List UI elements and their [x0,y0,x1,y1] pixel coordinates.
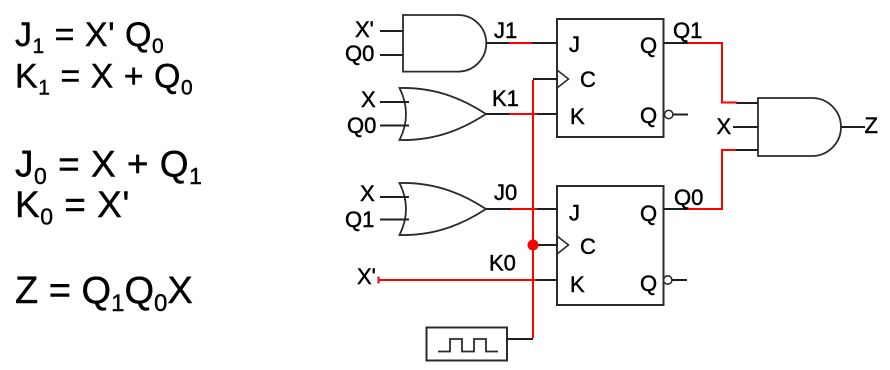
svg-text:J: J [569,201,580,226]
svg-text:J1 = X' Q0: J1 = X' Q0 [15,16,164,58]
svg-text:X: X [361,87,376,112]
svg-text:Q1: Q1 [345,207,374,232]
svg-text:K1 = X + Q0: K1 = X + Q0 [15,58,193,100]
svg-text:Z = Q1Q0X: Z = Q1Q0X [15,270,193,317]
svg-text:K: K [570,272,585,297]
svg-text:Q: Q [640,201,657,226]
svg-text:K0 = X': K0 = X' [15,184,130,230]
svg-text:K0: K0 [489,251,516,276]
svg-text:C: C [580,234,596,259]
svg-text:Q1: Q1 [673,18,702,43]
svg-text:X': X' [357,264,376,289]
svg-text:C: C [580,67,596,92]
svg-text:Q: Q [640,271,657,296]
svg-text:J0 = X + Q1: J0 = X + Q1 [15,144,202,190]
svg-text:Q: Q [640,33,657,58]
svg-text:Q: Q [640,103,657,128]
svg-text:X: X [717,114,732,139]
svg-text:Q0: Q0 [345,41,374,66]
svg-text:J0: J0 [494,180,517,205]
svg-text:X': X' [355,17,374,42]
svg-text:Z: Z [865,113,878,138]
svg-text:Q0: Q0 [347,113,376,138]
svg-text:J1: J1 [494,18,517,43]
svg-text:J: J [569,32,580,57]
svg-text:X: X [360,181,375,206]
svg-text:Q0: Q0 [674,185,703,210]
svg-text:K: K [570,104,585,129]
svg-text:K1: K1 [492,86,519,111]
